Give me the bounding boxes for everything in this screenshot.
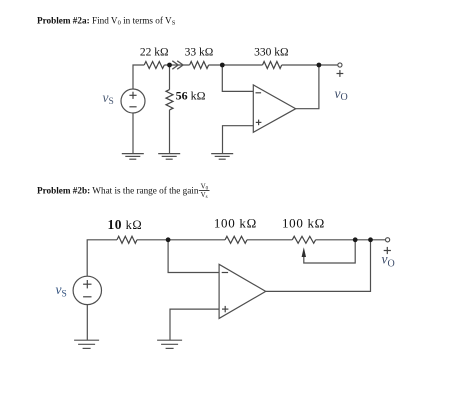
svg-text:Problem #2b: What is the range: Problem #2b: What is the range of the ga… (37, 186, 199, 196)
svg-text:100 kΩ: 100 kΩ (214, 216, 257, 231)
svg-text:330 kΩ: 330 kΩ (254, 47, 288, 59)
svg-text:33 kΩ: 33 kΩ (185, 47, 214, 59)
svg-text:56 kΩ: 56 kΩ (176, 89, 206, 103)
svg-text:22 kΩ: 22 kΩ (140, 47, 169, 59)
svg-text:10 kΩ: 10 kΩ (108, 217, 143, 232)
svg-text:100 kΩ: 100 kΩ (282, 216, 325, 231)
svg-text:Problem #2a: Find V0 in terms: Problem #2a: Find V0 in terms of VS (37, 15, 176, 26)
